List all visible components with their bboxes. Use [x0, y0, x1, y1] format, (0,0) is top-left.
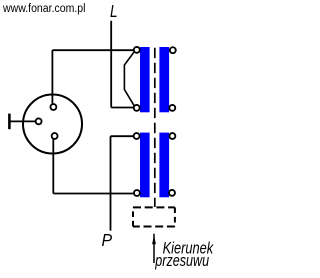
svg-text:przesuwu: przesuwu [155, 252, 210, 270]
connector X1 pin left [36, 118, 42, 124]
terminal T1 (ground lug) [8, 114, 11, 130]
wire net L horizontal to head G1 pin 2 [111, 107, 134, 109]
wire X1 bottom pin vertical [52, 140, 54, 194]
tape path (dashed line) [154, 48, 156, 207]
wire net P horizontal to head G2 pin 1 [111, 135, 135, 137]
wire bottom horizontal to head G2 pin 2 [53, 193, 134, 195]
head G2 pin 3 [169, 190, 175, 196]
connector X1 pin bottom [52, 133, 58, 139]
head G2 pin 4 [169, 133, 175, 139]
svg-text:P: P [102, 230, 113, 250]
wire T1 to X1 left pin [9, 120, 35, 122]
head G1 pin 1 [134, 47, 140, 53]
svg-text:L: L [110, 1, 118, 21]
pressure pad / capstan (dashed box) [133, 207, 175, 226]
arrow tape direction [153, 234, 155, 263]
head G1 pin 4 [170, 47, 176, 53]
head G1 pin 2 [134, 105, 140, 111]
wire top horizontal to head G1 pin 1 [52, 49, 134, 51]
head G2 pin 2 [134, 190, 140, 196]
wire X1 top pin vertical [51, 50, 53, 104]
wire net P vertical [110, 136, 112, 230]
wire net L vertical [110, 21, 112, 108]
head G1 right core [159, 47, 169, 112]
connector X1 DIN plug outline [23, 95, 82, 154]
head G2 left core [140, 133, 150, 198]
connector X1 pin top [50, 104, 56, 110]
head G2 right core [159, 133, 169, 198]
head G1 pin 3 [169, 105, 175, 111]
head G1 coil bracket [124, 51, 134, 107]
svg-text:www.fonar.com.pl: www.fonar.com.pl [2, 3, 85, 15]
head G1 left core [140, 47, 150, 112]
head G2 pin 1 [134, 133, 140, 139]
